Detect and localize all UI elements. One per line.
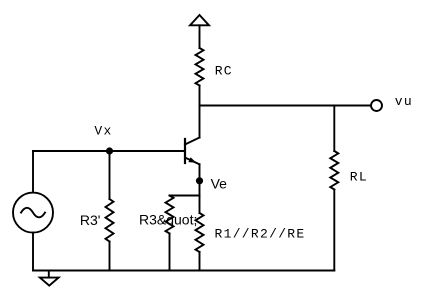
svg-text:R1//R2//RE: R1//R2//RE [215, 226, 306, 241]
svg-text:R3': R3' [80, 212, 101, 228]
svg-text:RC: RC [215, 63, 233, 78]
svg-text:vu: vu [395, 94, 413, 109]
svg-text:Vx: Vx [94, 124, 112, 139]
svg-text:RL: RL [350, 170, 368, 185]
svg-text:R3&quot;: R3&quot; [139, 212, 197, 228]
svg-text:Ve: Ve [211, 176, 228, 192]
